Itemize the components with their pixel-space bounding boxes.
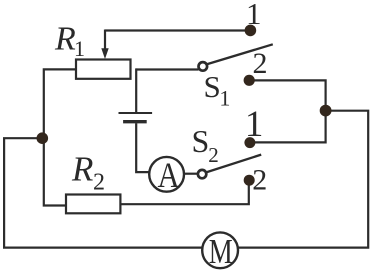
svg-text:2: 2 [208, 143, 219, 167]
svg-text:S: S [192, 123, 210, 159]
svg-text:A: A [158, 156, 180, 196]
svg-text:2: 2 [253, 47, 268, 80]
svg-text:1: 1 [245, 104, 264, 145]
svg-text:R: R [54, 20, 76, 57]
svg-text:S: S [204, 69, 221, 104]
svg-text:1: 1 [246, 0, 262, 31]
svg-text:1: 1 [219, 85, 230, 110]
svg-text:1: 1 [74, 36, 85, 61]
svg-text:2: 2 [252, 164, 267, 197]
svg-text:2: 2 [93, 169, 105, 195]
svg-text:R: R [71, 150, 93, 189]
svg-text:M: M [209, 232, 233, 271]
